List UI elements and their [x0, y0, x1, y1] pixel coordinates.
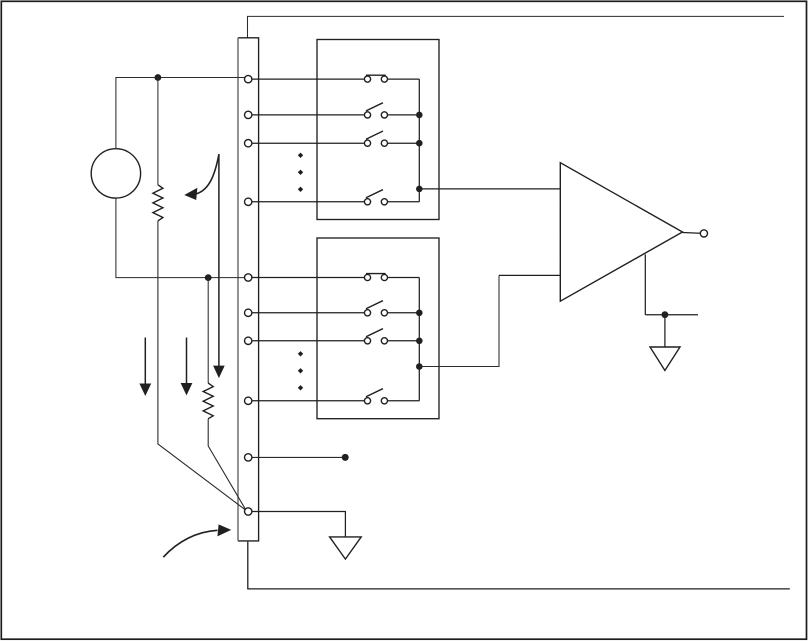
switch S1 closed [364, 75, 387, 82]
pin 2 wire to switch [252, 114, 364, 116]
current arrow 3 long shaft [213, 154, 225, 378]
switch S6 open [364, 301, 387, 316]
resistor R2 [203, 383, 213, 419]
pin 1 wire to switch [252, 78, 364, 80]
wire box2 output to op-amp [419, 275, 499, 366]
junction dot at ground stub [662, 311, 669, 318]
pin 8 wire to switch [252, 400, 364, 402]
pin 9 [245, 454, 252, 461]
wire to op-amp lower input [499, 274, 560, 276]
mux box 2 [317, 238, 439, 419]
pin 6 wire to switch [252, 312, 364, 314]
pin 5 wire to switch [252, 277, 364, 279]
switch S2 open [364, 103, 387, 118]
ellipsis diamonds box 2 [298, 351, 303, 390]
pin 10 [245, 508, 252, 515]
bus junction dots box 1 [416, 112, 423, 193]
junction node bottom [205, 274, 212, 281]
pin 10 wire to ground [252, 512, 345, 537]
switch S7 open [364, 329, 387, 344]
op-amp U1 [560, 163, 682, 302]
output terminal [700, 230, 707, 237]
wire R2 bottom to pin 10 [208, 419, 245, 510]
output wire [683, 232, 701, 235]
pin 7 [245, 337, 252, 344]
switch S8 open [364, 389, 387, 404]
ellipsis diamonds box 1 [298, 153, 303, 192]
resistor R1 top lead [157, 78, 159, 185]
resistor R1 [153, 185, 163, 221]
current arrow 1 [139, 338, 151, 397]
pin 4 [245, 198, 252, 205]
wire source top to pin 1 [116, 78, 245, 149]
pin 9 wire to test node [252, 456, 345, 458]
switch S4 open [364, 190, 387, 205]
pin 6 [245, 309, 252, 316]
resistor R2 top lead [207, 278, 209, 384]
curved arrow lower [163, 524, 231, 557]
junction node top [155, 74, 162, 81]
voltage source V1 [91, 149, 140, 198]
pin 8 [245, 397, 252, 404]
pin 3 [245, 140, 252, 147]
wire top shield from connector to right [248, 16, 785, 37]
wire op-amp to ground [645, 254, 698, 347]
pin 1 [245, 75, 252, 82]
bus box 2 [388, 278, 420, 401]
curved arrow upper [184, 155, 219, 201]
ground 1 [330, 537, 362, 559]
wire source bottom to pin 5 [116, 198, 245, 278]
ground 2 [650, 347, 680, 371]
switch S5 closed [364, 274, 387, 281]
pin 7 wire to switch [252, 340, 364, 342]
switch S3 open [364, 131, 387, 146]
pin 2 [245, 111, 252, 118]
pin 4 wire to switch [252, 201, 364, 203]
bus junction dots box 2 [416, 310, 423, 370]
current arrow 2 [181, 338, 193, 396]
pin 3 wire to switch [252, 142, 364, 144]
connector J1 body [238, 38, 259, 541]
wire R1 bottom to pin 10 [158, 221, 245, 510]
wire bottom shield [248, 542, 790, 589]
wire box1 output to op-amp [419, 188, 560, 190]
mux box 1 [317, 40, 439, 220]
pin 5 [245, 274, 252, 281]
test node dot [342, 454, 349, 461]
bus box 1 [388, 79, 420, 202]
